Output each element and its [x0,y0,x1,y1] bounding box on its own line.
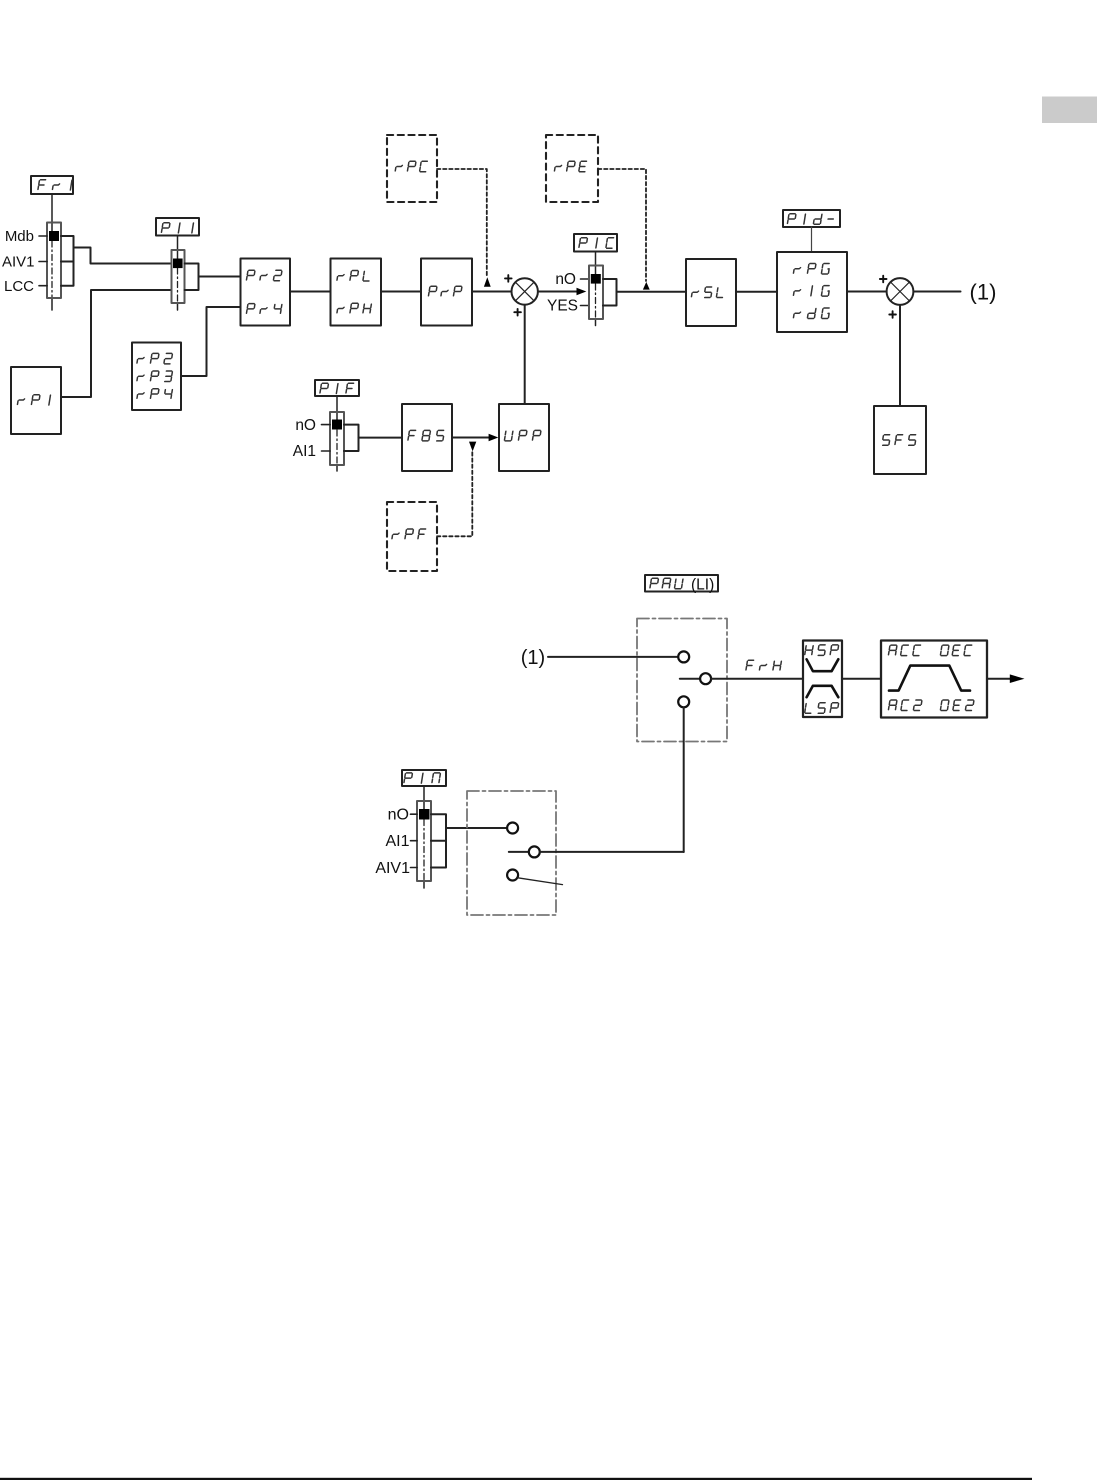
contact PAU mid [700,673,711,684]
box rP1 [11,367,61,434]
svg-text:LCC: LCC [4,278,34,295]
arrow rPE [643,282,650,290]
tick nO PIF [322,424,331,426]
tick AI1 PIM [411,840,418,842]
selector PIM centerline [423,820,425,881]
wire rP234 to Pr4 [181,307,241,376]
selector PII centerline [177,268,179,303]
wire HSP to ACC [842,678,881,680]
7-seg text PrP [428,286,462,296]
bracket PIM [431,814,446,867]
7-seg text UPP [504,430,541,441]
label box PAU (LI) [645,575,718,592]
wire rPG to sum2 [847,291,887,293]
bracket PIF [344,425,359,451]
box HSP LSP [803,641,842,718]
wire rSL to rPG [736,291,777,293]
7-seg text Pr4 [246,304,282,314]
wire sum1 down to UPP [524,305,526,404]
contact PAU top [678,651,689,662]
contact switch bottom [507,870,518,881]
wire Fr1 label to selector [51,194,53,231]
7-seg text FrH [746,660,782,670]
arrowhead FBS to UPP [489,434,499,442]
wire PIF to FBS [359,437,403,439]
7-seg text rPH [337,303,372,313]
svg-text:AI1: AI1 [385,833,409,850]
selector PIC position square [591,274,601,284]
selector PIC [589,266,603,320]
wire PIC label to selector [595,252,597,275]
selector PIF [330,412,344,465]
7-seg text rIG [793,286,830,297]
wire (1) to PAU top contact [548,656,678,658]
arrowhead into PIC [577,288,587,296]
contact switch mid [529,846,540,857]
wire PII to Pr2 [199,276,241,278]
glyph clamp bottom [807,686,839,697]
wire PAU bottom down [683,707,685,852]
7-seg text Pr2 [246,270,282,281]
selector PII position square [173,259,183,269]
tick YES PIC [581,305,590,307]
box rPG rIG rdG [777,252,847,332]
svg-text:YES: YES [547,298,578,315]
wire ACC out [987,678,1011,680]
7-seg text PIF [320,383,354,393]
7-seg text PIM [404,773,441,783]
svg-text:AI1: AI1 [293,443,316,460]
7-seg text DE2 [940,700,974,711]
dashed box rPE [546,135,598,202]
7-seg text HSP [805,645,839,656]
plus sign bottom sum1 [514,309,521,316]
7-seg text DEC [940,645,971,656]
7-seg text SFS [882,435,917,446]
selector Fr1 position square [49,231,59,241]
box rSL [686,259,736,326]
dashed wire rPF [437,452,472,536]
7-seg text rPE [554,161,586,172]
box PrP [421,259,472,326]
dash-dot box PIM switch [467,791,556,915]
wire rPL to PrP [381,291,421,293]
wire rP1 to PII [61,290,172,397]
7-seg text ACC [888,645,920,656]
7-seg text LSP [805,703,839,714]
arrow rPF [469,442,476,452]
svg-text:AIV1: AIV1 [375,860,410,877]
label box PIF [315,380,359,396]
arrowhead output [1010,674,1025,683]
label box PII [156,218,199,236]
bracket PIC [603,279,617,306]
wire PIC to rSL [617,291,687,293]
7-seg text PIC [579,238,614,249]
label box PIC [574,234,617,252]
7-seg text rP1 [17,395,50,405]
glyph clamp top [807,659,839,671]
dashed box rPC [387,135,437,202]
svg-text:nO: nO [388,807,409,824]
label box Fr1 [31,176,73,194]
contact PAU bottom [678,696,689,707]
selector PIM position square [419,809,430,820]
wire sum2 to (1) [913,291,960,293]
dash-dot box PAU switch [637,619,727,742]
tick AI1 PIF [322,450,331,452]
stub PAU mid contact [680,678,700,680]
wire PIM label to selector [423,786,425,809]
box rP2 rP3 rP4 [132,343,181,411]
svg-text:AIV1: AIV1 [2,254,35,271]
svg-text:(1): (1) [521,647,545,669]
stub switch mid contact [509,851,529,853]
svg-text:nO: nO [295,417,316,434]
7-seg text PId- [787,214,834,225]
tick Mdb [39,235,47,237]
7-seg text rP2 [137,353,173,364]
wire PIM to switch top contact [446,827,507,829]
selector PIF centerline [336,430,338,465]
wire PIF label to selector [336,396,338,420]
7-seg text rdG [793,308,830,319]
7-seg text AC2 [888,700,922,711]
dashed box rPF [387,502,437,571]
7-seg text rP3 [137,371,173,382]
box Pr2 Pr4 [241,259,291,326]
wire PrP to sum1 [472,291,511,293]
dashed wire rPC [437,169,487,277]
7-seg text rPG [793,264,830,275]
wire Fr1 to PII [74,248,172,264]
selector PIC centerline [595,284,597,319]
bracket Fr1 [61,236,74,286]
wire PII label to selector [177,236,179,259]
wire PAU out to HSP [711,678,803,680]
svg-text:(1): (1) [970,280,997,305]
7-seg text rPL [337,271,371,282]
tick AIV1 PIM [411,867,418,869]
box ACC DEC [881,641,987,718]
summing junction 2 [887,278,914,305]
7-seg text rSL [691,287,724,298]
box SFS [874,406,926,474]
wire Pr2 to rPL [290,291,331,293]
tick nO PIM [411,813,418,815]
selector Fr1 [47,223,61,299]
svg-text:Mdb: Mdb [5,228,34,245]
wire PId label to box [811,227,813,252]
summing junction 1 [512,278,538,304]
dashed wire rPE [598,169,646,281]
label box PIM [402,770,446,786]
tick LCC [39,285,47,287]
plus sign bottom sum2 [889,311,896,318]
7-seg text rP4 [137,389,173,399]
7-seg text rPF [392,529,426,539]
wire FBS to UPP [452,437,489,439]
bottom rule [0,1478,1032,1480]
selector Fr1 centerline [51,241,53,298]
wire sum2 down to SFS [899,305,901,406]
box FBS [402,404,452,471]
selector PIM [417,801,431,881]
7-seg text FBS [408,430,445,441]
contact switch top [507,823,518,834]
bracket PII [185,264,199,291]
7-seg text Fr1 [38,180,72,190]
selector PIF position square [332,420,342,430]
svg-text:nO: nO [555,271,576,288]
gray tab top right [1042,97,1097,124]
selector PII [172,250,185,303]
arrow rPC [484,277,491,287]
tick nO PIC [581,278,590,280]
blade switch bottom [518,878,563,885]
ramp glyph [889,666,970,691]
svg-text:(LI): (LI) [691,577,714,594]
tick AIV1 [39,261,47,263]
wire switch mid to PAU bottom [540,851,684,853]
7-seg text rPC [395,161,427,172]
plus sign top sum2 [880,276,887,283]
7-seg text PAU [650,578,683,589]
7-seg text PII [161,223,193,233]
box UPP [499,404,549,471]
wire sum1 to PIC [538,291,578,293]
label box PId- [783,210,840,227]
plus sign top sum1 [505,275,512,282]
box rPL rPH [331,259,382,326]
